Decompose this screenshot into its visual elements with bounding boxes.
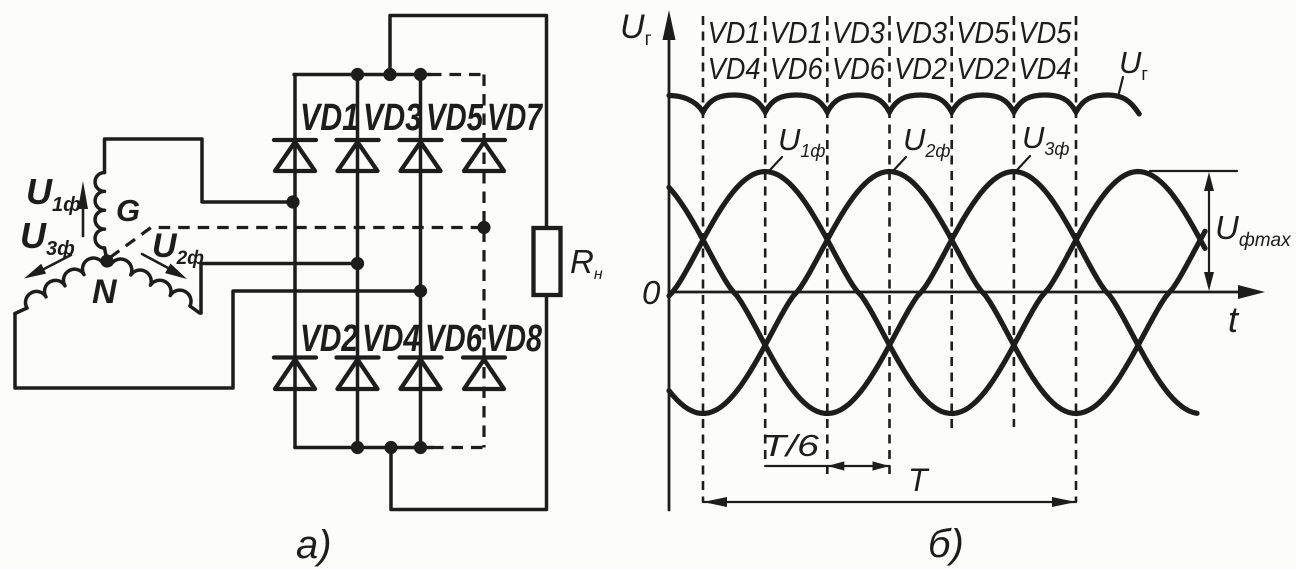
svg-text:VD6: VD6 xyxy=(832,51,886,86)
svg-text:VD6: VD6 xyxy=(770,51,824,86)
svg-text:VD1: VD1 xyxy=(300,97,359,139)
svg-text:0: 0 xyxy=(642,274,661,311)
svg-text:VD2: VD2 xyxy=(894,51,947,86)
svg-text:VD3: VD3 xyxy=(894,15,947,50)
svg-text:VD4: VD4 xyxy=(1018,51,1071,86)
svg-text:б): б) xyxy=(928,522,964,566)
svg-text:VD2: VD2 xyxy=(300,318,358,360)
svg-text:VD6: VD6 xyxy=(425,318,483,360)
svg-text:VD5: VD5 xyxy=(956,15,1010,50)
svg-text:VD5: VD5 xyxy=(426,97,484,139)
svg-text:VD1: VD1 xyxy=(770,15,823,50)
svg-text:VD4: VD4 xyxy=(362,318,420,360)
svg-text:VD3: VD3 xyxy=(832,15,885,50)
svg-text:VD5: VD5 xyxy=(1018,15,1072,50)
svg-text:а): а) xyxy=(296,523,332,567)
svg-text:T/6: T/6 xyxy=(762,428,820,463)
svg-text:N: N xyxy=(92,273,118,311)
svg-text:T: T xyxy=(908,462,930,498)
svg-text:G: G xyxy=(116,193,140,228)
svg-text:VD3: VD3 xyxy=(363,97,422,139)
svg-text:VD4: VD4 xyxy=(708,51,761,86)
svg-text:VD2: VD2 xyxy=(956,51,1009,86)
svg-text:VD7: VD7 xyxy=(487,97,543,139)
svg-text:VD1: VD1 xyxy=(708,15,761,50)
svg-text:VD8: VD8 xyxy=(486,318,543,360)
